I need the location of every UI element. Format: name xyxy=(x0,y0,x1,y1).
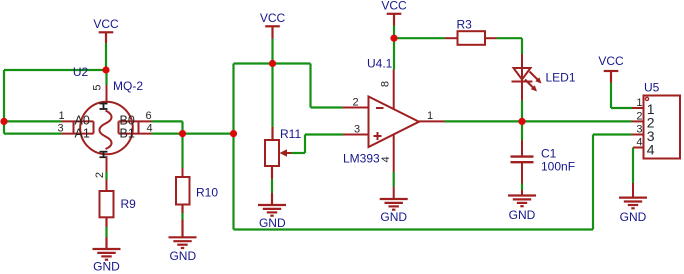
wire VCC2 node horizontal xyxy=(234,62,311,64)
op-amp plus marker xyxy=(374,132,382,140)
svg-text:VCC: VCC xyxy=(260,11,286,25)
op-amp pin 3 stub xyxy=(343,134,369,136)
gas sensor U2 MQ-2 body xyxy=(80,102,133,155)
wire down to op-amp pin 2 xyxy=(311,64,343,108)
svg-text:VCC: VCC xyxy=(93,17,119,31)
wire top-left horizontal xyxy=(4,69,106,71)
svg-text:GND: GND xyxy=(509,208,536,222)
wire R11 bottom to GND xyxy=(271,166,273,205)
wire down to C1 xyxy=(521,121,523,155)
wire R3 left xyxy=(445,37,458,39)
connector U5 body xyxy=(644,96,681,159)
svg-text:6: 6 xyxy=(146,110,152,122)
svg-text:4: 4 xyxy=(647,142,655,158)
LED1 emission arrows xyxy=(525,72,542,92)
svg-text:4: 4 xyxy=(636,137,642,149)
capacitor C1 xyxy=(511,157,534,163)
MQ-2 top heater pin 5 xyxy=(105,70,107,85)
junction dot at VCC1/pin5 xyxy=(102,66,109,73)
svg-text:MQ-2: MQ-2 xyxy=(113,79,143,93)
U5 pin 3 stub xyxy=(632,134,644,136)
wire LED cathode down xyxy=(521,82,523,122)
junction dot sensor output node xyxy=(230,130,237,137)
svg-text:1: 1 xyxy=(636,97,642,109)
svg-text:3: 3 xyxy=(636,124,642,136)
wire to MQ-2 pin 3 xyxy=(4,133,62,135)
U5 pin 4 stub xyxy=(633,147,644,149)
svg-text:R11: R11 xyxy=(280,127,301,141)
svg-text:U4.1: U4.1 xyxy=(367,57,393,71)
op-amp minus marker xyxy=(376,107,384,109)
wire op-amp pin 8 xyxy=(393,38,395,109)
junction dot output/LED/C1 xyxy=(518,118,525,125)
svg-text:GND: GND xyxy=(380,210,407,224)
supply symbol VCC (net VCC4 at U5) xyxy=(604,71,619,83)
svg-text:3: 3 xyxy=(354,124,360,136)
MQ-2 left pin box (A0/A1) xyxy=(62,121,94,133)
supply symbol VCC (net VCC2 at R11) xyxy=(265,26,280,38)
op-amp output pin 1 stub xyxy=(419,120,445,122)
svg-text:U2: U2 xyxy=(73,65,89,79)
svg-text:R3: R3 xyxy=(457,18,473,32)
potentiometer R11 body xyxy=(265,140,279,166)
U5 pin 2 stub xyxy=(632,120,644,122)
svg-text:1: 1 xyxy=(59,110,65,122)
svg-text:A0: A0 xyxy=(75,114,90,128)
svg-text:4: 4 xyxy=(380,156,392,162)
resistor R10 xyxy=(176,177,190,205)
ground below R10 xyxy=(169,237,197,248)
wire VCC1 stem xyxy=(105,43,107,70)
wire MQ-2 pin2 to R9 xyxy=(105,172,107,191)
svg-text:U5: U5 xyxy=(644,80,660,94)
wire MQ-2 pin6 to node xyxy=(152,121,183,133)
ground below U5 xyxy=(619,198,647,209)
svg-text:5: 5 xyxy=(92,84,104,90)
svg-text:2: 2 xyxy=(636,110,642,122)
ground below C1 xyxy=(508,196,536,207)
svg-text:GND: GND xyxy=(620,210,647,224)
wire R3 right to LED xyxy=(485,38,522,68)
svg-text:100nF: 100nF xyxy=(541,160,575,174)
ground below op-amp xyxy=(380,199,408,210)
wire left vertical xyxy=(3,70,5,134)
MQ-2 bottom heater pin 2 xyxy=(106,157,108,172)
wire up to U5 pin 3 xyxy=(592,135,594,230)
wire MQ-2 pin4 to node xyxy=(152,133,234,135)
supply symbol VCC (net VCC1 at MQ-2) xyxy=(99,32,114,43)
svg-text:GND: GND xyxy=(93,260,120,274)
wire U5 pin 3 horizontal xyxy=(593,133,632,135)
svg-text:2: 2 xyxy=(94,172,106,178)
wire to MQ-2 pin 1 xyxy=(4,120,62,122)
wire VCC4 to U5 pin 1 xyxy=(611,83,632,109)
wire U5 pin4 to GND xyxy=(632,183,634,198)
svg-text:2: 2 xyxy=(352,97,358,109)
wire U5 pin 4 from GND xyxy=(632,148,634,184)
wire R9 to GND1 xyxy=(105,217,107,249)
svg-text:B1: B1 xyxy=(120,127,135,141)
wire node to R10 xyxy=(181,134,183,177)
LED LED1 xyxy=(512,68,533,82)
svg-text:8: 8 xyxy=(380,81,392,87)
wire op-amp output long run xyxy=(445,120,632,122)
svg-text:C1: C1 xyxy=(541,147,557,161)
supply symbol VCC (net VCC3 at op-amp) xyxy=(387,14,402,26)
resistor R3 xyxy=(458,31,486,45)
svg-text:R9: R9 xyxy=(121,197,137,211)
U5 pin 1 stub xyxy=(632,107,644,109)
ground GND1 (below R9) xyxy=(93,249,121,260)
svg-text:LED1: LED1 xyxy=(546,71,576,85)
junction dot at R10 top xyxy=(179,130,186,137)
wire VCC2 down xyxy=(271,39,273,64)
MQ-2 heater H glyph top xyxy=(100,104,108,110)
svg-text:3: 3 xyxy=(58,123,64,135)
svg-text:B0: B0 xyxy=(120,114,135,128)
svg-text:1: 1 xyxy=(427,110,433,122)
wire VCC2 node to R11 xyxy=(271,64,273,141)
wire bottom long run xyxy=(234,228,594,230)
svg-text:GND: GND xyxy=(169,249,196,263)
svg-text:LM393: LM393 xyxy=(343,152,380,166)
ground below R11 xyxy=(258,205,286,216)
MQ-2 heater H glyph bottom xyxy=(100,152,108,158)
U5 pin-1 indicator circle xyxy=(645,97,648,100)
svg-text:VCC: VCC xyxy=(598,54,624,68)
wire C1 to GND xyxy=(521,162,523,195)
svg-text:R10: R10 xyxy=(196,186,218,200)
wire vertical sensor net xyxy=(232,64,234,230)
op-amp pin 2 stub xyxy=(343,107,369,109)
svg-text:A1: A1 xyxy=(75,127,90,141)
svg-text:GND: GND xyxy=(259,216,286,230)
op-amp U4.1 LM393 triangle xyxy=(369,97,420,148)
wire R10 to GND xyxy=(181,205,183,238)
junction dot left xyxy=(0,118,7,125)
MQ-2 right pin box (B0/B1) xyxy=(119,121,152,133)
resistor R9 xyxy=(100,191,114,217)
svg-text:VCC: VCC xyxy=(381,0,407,13)
wire R11 wiper to op-amp pin 3 xyxy=(292,135,344,154)
junction dot VCC3 node xyxy=(390,35,397,42)
potentiometer R11 wiper arrow xyxy=(280,149,292,156)
wire VCC3 node to R3 xyxy=(394,37,445,39)
wire VCC3 down xyxy=(393,26,395,39)
op-amp pin 4 xyxy=(393,135,395,200)
junction dot VCC2 node xyxy=(269,60,276,67)
